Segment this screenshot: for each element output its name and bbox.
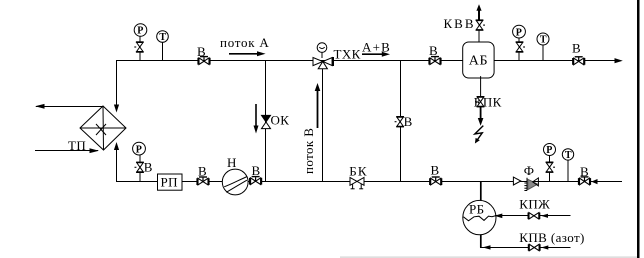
wire: KPZh line [495, 215, 571, 217]
gauge P1 [134, 24, 147, 37]
flow arrow A+V [362, 53, 383, 55]
right border [637, 0, 640, 258]
svg-text:Р: Р [137, 26, 143, 37]
valve on bypass branch [395, 116, 404, 127]
flow arrow A [229, 53, 258, 55]
valve KPV [528, 244, 541, 251]
lightning (flare) [475, 126, 484, 141]
gauge T3 [562, 149, 573, 160]
svg-text:поток А: поток А [220, 35, 270, 50]
pump N [222, 169, 248, 195]
gauge T-AB stem [542, 45, 544, 61]
valve B7 (bottom far right) [578, 176, 591, 185]
arrow into TP from top [114, 105, 119, 113]
valve under P1 [134, 41, 143, 52]
valve under P2 [135, 162, 144, 173]
valve B5 [249, 176, 262, 185]
bottom pipe inlet arrow [591, 179, 597, 184]
svg-text:Т: Т [540, 35, 547, 46]
svg-text:ТП: ТП [68, 138, 86, 153]
svg-text:КПЖ: КПЖ [519, 197, 550, 212]
gauge P3 stem [549, 156, 551, 182]
svg-text:В: В [198, 164, 207, 179]
svg-text:А+В: А+В [362, 39, 391, 54]
svg-text:Т: Т [565, 150, 572, 161]
KPK discharge arrow [480, 107, 482, 119]
gauge T3 stem [567, 160, 569, 182]
gauge T1 stem [162, 42, 164, 61]
heat exchanger TP [80, 106, 126, 150]
svg-text:Ф: Ф [524, 163, 535, 178]
svg-text:В: В [431, 163, 440, 178]
svg-text:АБ: АБ [469, 54, 488, 69]
wire: TP outlet left [36, 106, 103, 108]
valve KPZh [528, 213, 541, 220]
svg-text:В: В [580, 164, 589, 179]
svg-text:ТХК: ТХК [334, 47, 361, 62]
valve B4 [196, 176, 209, 185]
valve under P-AB [516, 41, 525, 52]
regulator RP [158, 174, 183, 190]
svg-text:БК: БК [349, 163, 368, 178]
KVV vent arrow [478, 10, 480, 20]
svg-text:Т: Т [159, 32, 166, 43]
svg-text:В: В [404, 114, 413, 129]
apparatus AB [463, 42, 494, 78]
svg-text:В: В [252, 163, 261, 178]
gauge P2 [133, 142, 146, 155]
wire: bottom pipe left corner up to TP [116, 148, 118, 182]
svg-text:ОК: ОК [271, 113, 290, 128]
svg-text:поток В: поток В [301, 128, 316, 174]
valve BK [350, 178, 364, 189]
valve under P3 [546, 162, 555, 173]
svg-text:РБ: РБ [469, 202, 485, 217]
valve B6 [429, 176, 442, 185]
wire: RB stem [480, 182, 482, 203]
svg-text:Р: Р [546, 145, 552, 156]
flow arrow up (potok V) [317, 90, 319, 128]
wire: TXK leg (potok V) [322, 66, 324, 182]
arrow into TP from bottom [114, 142, 119, 150]
svg-text:РП: РП [161, 174, 178, 189]
valve B3 (top pipe far right) [572, 56, 585, 65]
vessel RB [463, 200, 496, 234]
svg-text:Н: Н [227, 155, 237, 170]
wire: bottom pipe [116, 181, 622, 183]
wire: TP inlet left [35, 150, 98, 152]
top pipe outlet arrow [615, 58, 623, 63]
valve B1 (top pipe) [197, 56, 210, 65]
gauge T-AB [537, 33, 549, 45]
gauge P3 [544, 144, 556, 156]
svg-text:КПВ (азот): КПВ (азот) [519, 230, 584, 245]
svg-text:КВВ: КВВ [444, 16, 476, 31]
gauge P-AB [513, 25, 526, 38]
flow cone [513, 177, 520, 185]
svg-text:В: В [197, 44, 206, 59]
svg-text:Р: Р [136, 144, 142, 155]
svg-text:Р: Р [516, 27, 522, 38]
gauge T1 [157, 31, 169, 43]
check valve OK [262, 115, 271, 122]
wire: OK branch [265, 61, 267, 182]
faint bottom border [340, 257, 637, 258]
valve B2 (top pipe right) [428, 56, 441, 65]
flow arrow down (OK branch) [255, 104, 257, 127]
svg-text:В: В [144, 160, 153, 175]
wire: top pipe left corner down to TP [116, 61, 118, 106]
wire: RB bottom to KPV line [480, 235, 482, 248]
wire: B bypass branch [400, 61, 402, 182]
gauge P-AB stem [518, 38, 520, 61]
svg-text:В: В [429, 43, 438, 58]
KVV stem [478, 20, 480, 42]
gauge P1 stem [139, 36, 141, 61]
svg-text:В: В [572, 41, 581, 56]
KPK valve [475, 96, 484, 107]
filter F [524, 178, 538, 191]
KVV valve [476, 19, 485, 30]
wire: top pipe [116, 60, 615, 62]
gauge P2 stem (bottom left) [139, 155, 141, 182]
three-way valve TXK [313, 43, 333, 69]
KPK stem [480, 76, 482, 107]
